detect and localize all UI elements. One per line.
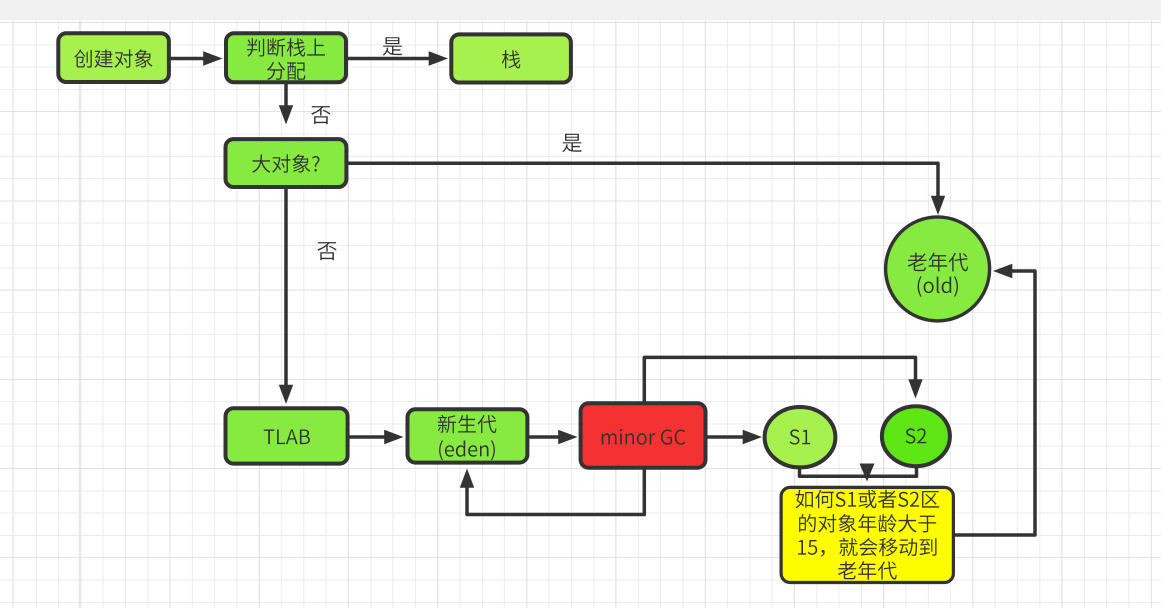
text 新生代 <box>438 415 497 433</box>
text minor GC <box>602 429 686 445</box>
text 判断栈上 <box>247 38 325 57</box>
text (eden) <box>439 440 495 460</box>
node yellow note <box>781 487 953 582</box>
text 分配 <box>267 62 305 80</box>
wire S2 → junction <box>868 466 917 477</box>
wire 判断栈上分配 → 栈 (是) <box>346 57 430 61</box>
wire 大对象? → 老年代 (是) <box>346 163 938 197</box>
text 栈 <box>502 50 521 68</box>
note line3 <box>798 538 936 557</box>
wire 新生代 → minor GC <box>528 435 560 439</box>
node 新生代(eden) <box>408 409 528 462</box>
label 否 (upper) <box>311 106 330 124</box>
wire yellow note → 老年代 <box>955 271 1035 535</box>
node S1 <box>765 407 836 467</box>
text 老年代 <box>908 253 968 272</box>
wire TLAB → 新生代 <box>348 435 386 439</box>
node 栈 <box>451 34 571 82</box>
wire 大对象? → TLAB (否) <box>284 187 288 386</box>
node 创建对象 <box>58 33 169 82</box>
text TLAB <box>264 430 310 445</box>
node 老年代(old) <box>886 217 990 321</box>
text (old) <box>918 276 958 297</box>
note line2 <box>799 514 936 533</box>
wire 判断栈上分配 → 大对象? (否) <box>284 82 288 107</box>
label 否 (lower) <box>317 242 336 260</box>
text 大对象? <box>252 154 319 172</box>
wire minor GC → S1 <box>706 435 744 439</box>
text 创建对象 <box>74 49 152 67</box>
arrowhead junction → yellow note <box>860 464 875 482</box>
note line1 <box>796 490 940 508</box>
note line4 <box>838 561 897 579</box>
wire minor GC → S2 (top loop) <box>644 357 915 403</box>
top toolbar strip <box>0 0 1161 20</box>
label 是 (long) <box>562 134 581 152</box>
wire minor GC → 新生代 (bottom loop) <box>467 468 644 515</box>
node TLAB <box>226 408 348 463</box>
node S2 <box>882 406 950 466</box>
text S2 <box>906 428 927 443</box>
label 是 (top) <box>383 37 402 55</box>
node minor GC <box>581 403 706 467</box>
wire 创建对象 → 判断栈上分配 <box>169 57 205 61</box>
wire S1 → junction <box>800 466 867 476</box>
text S1 <box>790 429 811 444</box>
node 大对象? <box>226 139 347 187</box>
node 判断栈上分配 <box>226 33 346 82</box>
